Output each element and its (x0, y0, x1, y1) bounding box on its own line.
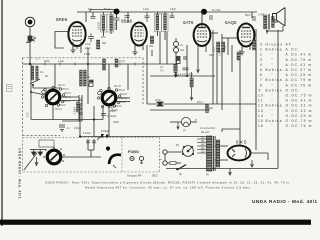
resistor under V4 (237, 52, 240, 60)
svg-text:UNDA RADIO - Mod. 40/1: UNDA RADIO - Mod. 40/1 (252, 199, 318, 204)
resistors V3 out (217, 42, 220, 52)
svg-text:↗37↗2: ↗37↗2 (119, 97, 127, 100)
resistor mid det (174, 64, 177, 73)
svg-text:5: 5 (260, 68, 263, 72)
capacitor rail x147 (145, 12, 150, 22)
svg-text:~: ~ (159, 157, 162, 162)
diode circles P (174, 42, 179, 47)
svg-text:0.1μF: 0.1μF (58, 61, 65, 63)
IF transformer T2 (155, 14, 169, 32)
junction dots box (32, 84, 34, 86)
bottom black bar (0, 220, 311, 225)
resistor Rk V1 (97, 40, 100, 49)
svg-text:O.OC.: O.OC. (286, 88, 301, 92)
svg-text:4: 4 (260, 63, 263, 67)
wire mid verticals (151, 36, 153, 43)
svg-text:0.1 mΩ e 0.1Ω: 0.1 mΩ e 0.1Ω (200, 128, 215, 130)
svg-text:AF: AF (286, 43, 293, 47)
svg-text:O.OC.79 m: O.OC.79 m (286, 119, 313, 123)
ground V1 cathode (71, 46, 82, 53)
svg-text:↗76↗1: ↗76↗1 (54, 108, 62, 111)
wire rail drop x93 (92, 12, 94, 16)
svg-text:0.05μF: 0.05μF (74, 128, 82, 130)
svg-text:A.OC.75 m: A.OC.75 m (286, 83, 313, 87)
svg-text:Δ.5.Λ: Δ.5.Λ (197, 101, 203, 104)
svg-text:0.05μF: 0.05μF (75, 106, 77, 114)
svg-text:0.1μF: 0.1μF (85, 44, 92, 46)
svg-text:↗41↗1: ↗41↗1 (57, 84, 65, 87)
heater crossing marks (101, 134, 108, 138)
svg-text:16: 16 (258, 124, 264, 128)
svg-text:↗79↗2: ↗79↗2 (114, 105, 122, 108)
svg-text:O.OC.31 m: O.OC.31 m (286, 104, 313, 108)
resistor V2 screen (150, 36, 153, 44)
sidebar stamp (7, 85, 13, 92)
svg-text:A.OC.37 m: A.OC.37 m (286, 68, 313, 72)
svg-text:UNDA RADIO - Mod. 40/1. Supere: UNDA RADIO - Mod. 40/1. Supereterodina a… (45, 181, 290, 185)
tube V4 6AQ5 (225, 15, 254, 52)
svg-text:2.2kΩ: 2.2kΩ (84, 54, 90, 56)
wire top rail (77, 11, 257, 13)
svg-text:3: 3 (260, 58, 263, 62)
svg-text:↗25↗1: ↗25↗1 (62, 100, 70, 103)
contact labels S2 (110, 85, 127, 112)
svg-text:A.OC.41 m: A.OC.41 m (286, 53, 313, 57)
svg-text:ΛΩ +ΔΛ: ΛΩ +ΔΛ (201, 131, 210, 134)
coil L1 double (30, 66, 40, 84)
svg-text:A.OC.75 m: A.OC.75 m (286, 58, 313, 62)
terminal box (39, 140, 54, 147)
caps fono left (86, 141, 96, 143)
svg-text:Mε: Mε (87, 77, 90, 79)
svg-text:": " (272, 109, 274, 113)
junction dot antenna-bus (29, 63, 31, 65)
loudspeaker (273, 8, 286, 27)
tube V3 6AT6 (183, 12, 210, 46)
ground pair S3 (24, 150, 46, 171)
wire bottom bus v2 area (150, 75, 215, 77)
svg-text:4.51: 4.51 (89, 81, 94, 83)
svg-text:": " (272, 99, 274, 103)
svg-text:Bobina: Bobina (266, 104, 283, 108)
svg-text:14: 14 (258, 114, 264, 118)
contact labels S1 (54, 84, 71, 111)
caps S2 bottom (101, 114, 106, 116)
wire rail drop x128 (127, 12, 129, 23)
svg-text:A.OC.: A.OC. (286, 48, 301, 52)
svg-text:6AQ5: 6AQ5 (225, 20, 237, 25)
power transformer T3 (197, 136, 220, 171)
wire heater bus (31, 119, 103, 121)
svg-text:↗37↗1: ↗37↗1 (63, 96, 71, 99)
svg-text:↗75↗2: ↗75↗2 (117, 89, 125, 92)
svg-text:Φσ: Φσ (176, 144, 180, 147)
capacitor rail x172 (170, 12, 175, 18)
trimmer R46 (26, 36, 36, 43)
svg-text:Π.Λ: Π.Λ (160, 71, 164, 73)
junction dot B (201, 9, 207, 15)
junction dots det bus (175, 75, 177, 77)
capacitor det (183, 68, 189, 70)
wire box verticals (30, 64, 32, 120)
junction dot x88 bus (87, 63, 89, 65)
fuse box mains (170, 162, 176, 165)
svg-text:": " (272, 83, 274, 87)
svg-text:6AT6: 6AT6 (183, 20, 194, 25)
svg-text:0.1μF: 0.1μF (143, 9, 150, 11)
band switch S1 (41, 86, 64, 106)
wire lamp leads (170, 121, 181, 123)
output transformer T4 (258, 14, 274, 30)
wire AVC loop V1 grid (55, 32, 69, 49)
dashed enclosure top (23, 58, 144, 136)
svg-text:O.OC.41 m: O.OC.41 m (286, 99, 313, 103)
svg-text:22kΩ: 22kΩ (85, 48, 91, 50)
band switch S3 (43, 147, 65, 164)
svg-text:2: 2 (260, 53, 263, 57)
svg-text:↗25↗2: ↗25↗2 (118, 101, 126, 104)
wire mains bottom (166, 168, 278, 170)
svg-text:50/1: 50/1 (152, 174, 158, 178)
svg-text:50μF: 50μF (245, 15, 251, 17)
svg-text:FONO: FONO (128, 150, 139, 154)
ground V2 (133, 52, 138, 55)
trimmer stack (177, 57, 188, 64)
antenna jack (25, 17, 35, 27)
fuse bowtie on B+ (157, 102, 163, 106)
svg-text:7: 7 (260, 78, 263, 82)
svg-text:1: 1 (260, 48, 263, 52)
svg-text:UNDA RADIO - Mod. 40/1: UNDA RADIO - Mod. 40/1 (18, 148, 22, 199)
svg-text:0.5MΩ: 0.5MΩ (220, 49, 222, 56)
svg-text:10: 10 (258, 94, 264, 98)
svg-text:3: 3 (260, 43, 263, 47)
ground V4 (240, 52, 245, 55)
coil osc under T1 (103, 59, 106, 70)
wafer contact column (79, 99, 81, 115)
svg-text:15: 15 (258, 119, 264, 123)
svg-text:": " (272, 58, 274, 62)
svg-text:47μ: 47μ (40, 72, 45, 74)
svg-text:50μμF: 50μμF (104, 9, 111, 11)
wire S contact stubs S2 (116, 97, 130, 99)
dashed enclosure bottom (gruppo) (23, 138, 160, 173)
svg-text:Bobina: Bobina (266, 68, 283, 72)
svg-text:6BA6: 6BA6 (121, 19, 133, 24)
rectifier 6X5 (228, 140, 251, 161)
svg-text:Λ2μF: Λ2μF (96, 137, 102, 139)
svg-text:Bobina: Bobina (266, 48, 283, 52)
svg-text:12: 12 (258, 104, 264, 108)
wires fono area (61, 139, 101, 157)
svg-text:25μF: 25μF (214, 46, 216, 52)
svg-text:O.OC.75 m: O.OC.75 m (286, 94, 313, 98)
svg-text:11: 11 (258, 99, 264, 103)
IF transformer T1 (101, 15, 114, 33)
tube V1 6RE6 (56, 17, 86, 53)
svg-text:": " (272, 114, 274, 118)
wire right list separator (255, 45, 257, 130)
pilot lamp (177, 117, 191, 129)
svg-text:": " (272, 53, 274, 57)
svg-text:20000Ω: 20000Ω (99, 22, 101, 30)
T1 bottom leads (104, 26, 117, 36)
svg-text:O.OC.43 m: O.OC.43 m (286, 109, 313, 113)
power switch lever (176, 165, 186, 177)
svg-text:↗43↗1: ↗43↗1 (63, 92, 71, 95)
resistor AVC lower (190, 78, 193, 87)
svg-text:": " (272, 124, 274, 128)
wire S1 drop (52, 104, 54, 120)
FONO jacks (128, 150, 144, 164)
svg-text:Bobina: Bobina (266, 88, 283, 92)
wire antenna lead (29, 27, 31, 65)
ground arrow V3 (197, 70, 200, 73)
svg-text:0.5μF: 0.5μF (170, 9, 177, 11)
svg-text:13: 13 (258, 109, 264, 113)
trimmer small box (89, 81, 94, 87)
resistor near transformer top (206, 105, 209, 113)
wire S contact stubs S1 (60, 96, 79, 98)
svg-text:": " (272, 63, 274, 67)
arrow down bus (229, 169, 232, 176)
coil L2 double (80, 70, 87, 86)
svg-text:6.3V: 6.3V (28, 112, 30, 117)
svg-text:1kΩ: 1kΩ (102, 43, 106, 45)
wire to S1 (31, 92, 45, 95)
capacitor V4 grid (253, 16, 255, 21)
wire dot A drop (116, 12, 118, 18)
wire rail drop T1 (103, 12, 105, 15)
svg-text:9: 9 (259, 88, 262, 92)
svg-text:Bobina: Bobina (266, 119, 283, 123)
wire B+ rails (147, 103, 256, 105)
wire T2 drops (157, 12, 159, 14)
svg-text:": " (272, 94, 274, 98)
svg-text:700Ω: 700Ω (113, 122, 119, 124)
capacitor rail x127 (125, 16, 130, 18)
svg-text:6RE6: 6RE6 (56, 17, 68, 22)
svg-text:Δ7μ: Δ7μ (88, 8, 93, 11)
svg-text:": " (272, 73, 274, 77)
svg-text:31Ω: 31Ω (180, 50, 185, 52)
svg-text:Media frequenza 467 kc. Consum: Media frequenza 467 kc. Consumo: 45 watt… (85, 186, 251, 190)
svg-text:Gruppo AF: Gruppo AF (127, 174, 142, 178)
page left edge rule (1, 0, 2, 226)
heavy switch lever fono (109, 155, 121, 164)
band switch S2 (97, 87, 120, 107)
left column small parts x77 (75, 102, 80, 114)
svg-text:.002μF: .002μF (107, 107, 115, 109)
resistor V4 cathode (253, 40, 256, 50)
wire speaker field (274, 21, 278, 23)
svg-text:Σ1 ΩΛμF: Σ1 ΩΛμF (107, 116, 117, 118)
svg-text:4 ACμF: 4 ACμF (83, 132, 91, 135)
wire transformer right leads (215, 145, 228, 147)
bus wire in box (23, 63, 176, 65)
wire T2 bottom leads (157, 31, 159, 36)
svg-text:6 X 5: 6 X 5 (236, 140, 247, 145)
svg-text:100Ω: 100Ω (110, 111, 116, 113)
wire from 6X5 up (222, 129, 240, 132)
junction dot A (114, 9, 120, 15)
wire V1 grid into box (87, 48, 89, 104)
wire V1 top to rail (85, 12, 87, 22)
svg-text:↗41↗2: ↗41↗2 (113, 85, 121, 88)
wire S2 drop (108, 105, 110, 137)
svg-text:6: 6 (260, 73, 263, 77)
capacitor under dot A (114, 18, 120, 20)
svg-text:470kμF: 470kμF (101, 131, 109, 133)
capacitor V1 out (88, 33, 94, 42)
voltage selector (182, 146, 193, 157)
wire V2 bottom leads (134, 45, 136, 52)
svg-text:15Ω: 15Ω (149, 46, 154, 48)
svg-text:A.OC.79 m: A.OC.79 m (286, 78, 313, 82)
wire long verticals center (212, 30, 214, 104)
tube V2 6BA6 (121, 19, 147, 46)
svg-text:470Ω: 470Ω (155, 100, 161, 102)
mains plug (163, 150, 167, 165)
svg-text:C.2 R.Λ: C.2 R.Λ (117, 61, 126, 63)
svg-text:50μF 47Ω 4Π7.Λ: 50μF 47Ω 4Π7.Λ (176, 75, 194, 77)
svg-text:↗75↗1: ↗75↗1 (61, 88, 69, 91)
capacitor at dot B (210, 15, 212, 20)
svg-text:7P: 7P (183, 131, 186, 133)
svg-text:50μF: 50μF (225, 44, 227, 50)
wire V3 to V4 coupling (210, 32, 218, 34)
svg-text:O.OC.29 m: O.OC.29 m (286, 114, 313, 118)
svg-text:Gruppo: Gruppo (266, 43, 284, 47)
svg-text:Bobina: Bobina (266, 78, 283, 82)
capacitor on rail x93 (91, 17, 96, 19)
svg-text:1kΩ: 1kΩ (209, 108, 213, 110)
svg-text:8: 8 (260, 83, 263, 87)
bus ticks (45, 63, 135, 66)
svg-text:↗79↗1: ↗79↗1 (58, 104, 66, 107)
svg-text:A.OC.43 m: A.OC.43 m (286, 63, 313, 67)
ground arrow rectifier (251, 160, 254, 167)
cap+ground under S1 (59, 125, 65, 131)
svg-text:O.OC.76 m: O.OC.76 m (286, 124, 313, 128)
svg-text:A.OC.25 m: A.OC.25 m (286, 73, 313, 77)
wire speaker return (267, 26, 283, 34)
svg-text:AVC: AVC (101, 36, 106, 39)
svg-text:1MΩ: 1MΩ (209, 55, 214, 57)
V1 area micro labels (44, 36, 106, 63)
junction dot heater (93, 118, 95, 120)
svg-text:↗43↗2: ↗43↗2 (119, 93, 127, 96)
